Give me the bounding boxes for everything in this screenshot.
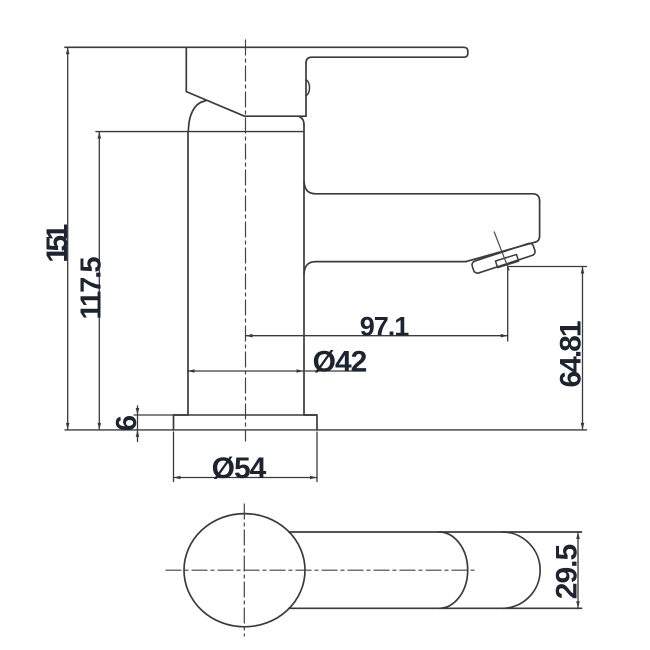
aerator nozzle insert bbox=[496, 254, 519, 267]
cartridge dome arc bbox=[188, 101, 205, 132]
spout top fillet bbox=[304, 181, 316, 194]
dimension 151 line bbox=[67, 47, 69, 430]
body right edge transition from handle bbox=[300, 117, 304, 125]
dimension 64.81 top arrow bbox=[581, 267, 585, 274]
side view centerline bbox=[245, 40, 247, 441]
dimension D54 left arrow bbox=[174, 476, 181, 480]
handle left edge bbox=[185, 47, 187, 91]
plan lever inner end arc bbox=[439, 532, 468, 608]
spout underside diagonal bbox=[466, 242, 536, 262]
plan lever top line with 29.5 extension bbox=[289, 531, 582, 533]
svg-text:151: 151 bbox=[41, 224, 74, 262]
plan lever bottom line with 29.5 extension bbox=[289, 607, 582, 609]
dimension 117.5 top arrow bbox=[98, 132, 102, 139]
dimension 29.5 line bbox=[577, 532, 579, 608]
handle bottom line bbox=[245, 115, 307, 117]
dimension 97.1 line bbox=[246, 335, 508, 337]
dimension D42 right arrow bbox=[297, 369, 304, 373]
dimension 117.5 bottom arrow bbox=[98, 423, 102, 430]
dimension D54 right arrow bbox=[310, 476, 317, 480]
dimension 6 extension line bbox=[134, 414, 174, 416]
spout top line bbox=[316, 194, 540, 201]
dimension D42 line bbox=[188, 370, 365, 372]
lever right cap bbox=[464, 47, 468, 57]
plan vertical centerline bbox=[243, 504, 245, 636]
dimension 151 bottom arrow bbox=[66, 423, 70, 430]
lever top line with 151 extension bbox=[65, 46, 463, 48]
dimension 97.1 right arrow bbox=[501, 334, 508, 338]
dimension 29.5 top arrow bbox=[576, 532, 580, 539]
svg-text:97.1: 97.1 bbox=[360, 312, 410, 342]
svg-text:64.81: 64.81 bbox=[555, 321, 588, 387]
dimension 151 top arrow bbox=[66, 47, 70, 54]
plan view body ellipse bbox=[184, 514, 305, 627]
dimension 97.1 left arrow bbox=[246, 334, 253, 338]
dimension 6 line bbox=[137, 406, 139, 442]
dimension 117.5 line bbox=[98, 132, 100, 430]
dimension D54 line bbox=[174, 477, 318, 479]
dimension D42 left arrow bbox=[188, 369, 195, 373]
body top joint line with 117.5 extension bbox=[96, 131, 304, 133]
svg-text:6: 6 bbox=[111, 415, 143, 431]
svg-text:Ø42: Ø42 bbox=[313, 346, 367, 379]
dimension D54 extension right bbox=[316, 432, 318, 482]
dimension 6 top arrow bbox=[136, 408, 140, 415]
dimension 64.81 extension line bbox=[509, 266, 587, 268]
aerator axis line bbox=[494, 232, 509, 270]
dimension 64.81 line bbox=[582, 267, 584, 430]
spout bottom fillet bbox=[304, 262, 316, 274]
lever bottom line bbox=[306, 57, 463, 63]
svg-text:Ø54: Ø54 bbox=[212, 452, 267, 485]
aerator outer housing bbox=[471, 242, 536, 274]
deck reference line bbox=[65, 429, 587, 431]
dimension 97.1 extension line bbox=[507, 266, 509, 341]
spout bottom line bbox=[316, 261, 466, 263]
base plate bbox=[174, 415, 318, 430]
dimension 6 bottom arrow bbox=[136, 430, 140, 437]
dimension 29.5 bottom arrow bbox=[576, 601, 580, 608]
handle bottom diagonal bbox=[186, 92, 244, 117]
handle side bump bbox=[306, 80, 310, 96]
svg-text:29.5: 29.5 bbox=[551, 544, 584, 599]
base plate top edge bbox=[174, 414, 318, 416]
body column right edge bbox=[303, 125, 305, 415]
dimension D54 extension left bbox=[173, 432, 175, 482]
svg-text:117.5: 117.5 bbox=[76, 257, 108, 320]
handle right edge bbox=[305, 63, 307, 116]
body column left edge bbox=[187, 132, 189, 415]
plan horizontal centerline bbox=[166, 569, 476, 571]
spout right edge bbox=[536, 201, 540, 242]
dimension 64.81 bottom arrow bbox=[581, 423, 585, 430]
plan lever outer end arc bbox=[502, 532, 540, 608]
